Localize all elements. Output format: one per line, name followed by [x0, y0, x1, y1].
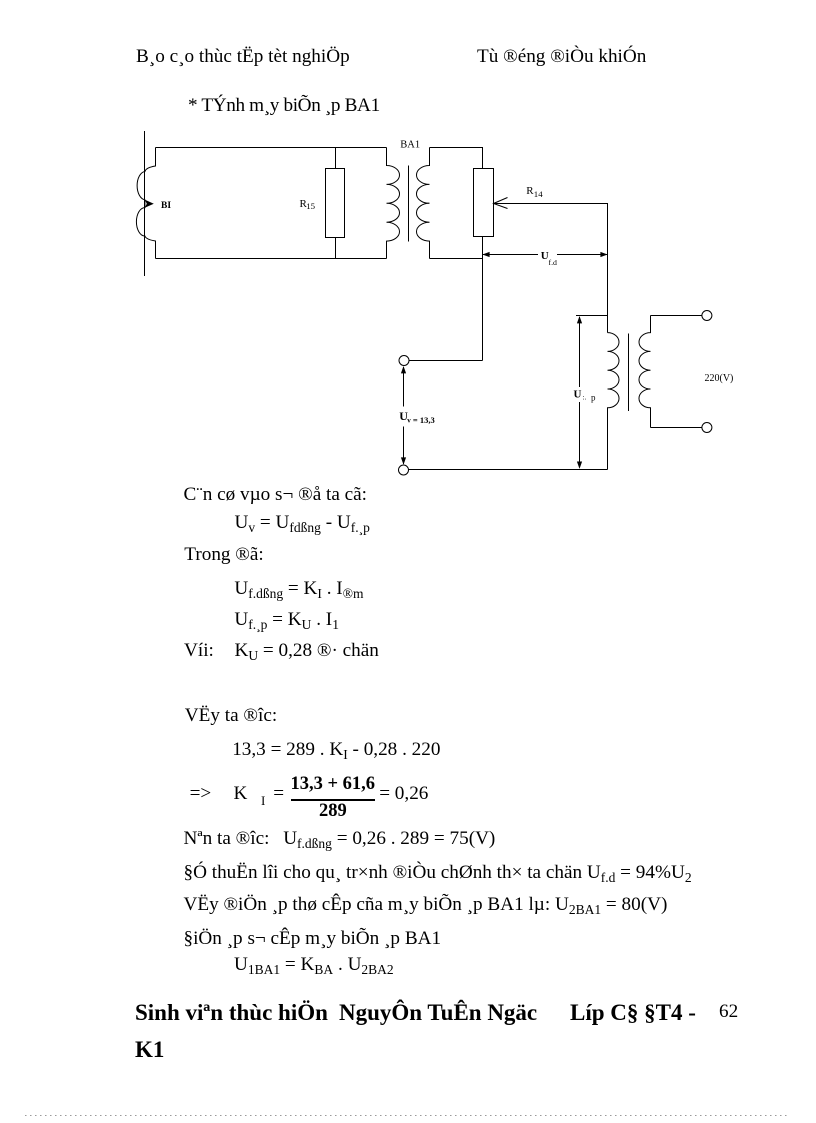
svg-text:v: v [407, 417, 411, 425]
terminal circle top-right [702, 311, 712, 321]
BI arrow [145, 200, 154, 208]
header left [136, 47, 350, 66]
svg-text::.: :. [583, 394, 587, 402]
wire R14 bottom down [482, 237, 484, 361]
wire loop top [156, 147, 387, 149]
svg-text:= 13,3: = 13,3 [413, 415, 435, 425]
svg-text:15: 15 [306, 201, 315, 211]
low transformer core [628, 334, 630, 412]
title [188, 96, 380, 115]
wire secondary top right [651, 315, 703, 317]
resistor R15 [335, 148, 337, 169]
measure Uthap extension tick [576, 315, 608, 317]
wire bottom horizontal to transformer [409, 469, 608, 471]
svg-text:220(V): 220(V) [705, 373, 734, 384]
terminal circle bottom-left [399, 465, 409, 475]
wire secondary top to R14 [430, 148, 483, 169]
terminal circle bottom-right [702, 423, 712, 433]
measure Ufd line [483, 254, 539, 256]
low transformer primary winding [608, 333, 620, 470]
low transformer secondary winding [639, 316, 651, 428]
wire secondary bottom right [651, 427, 703, 429]
wire wiper to right bus [494, 204, 608, 333]
resistor R14 [474, 169, 494, 237]
wire loop bottom [156, 258, 387, 260]
circuit schematic svg [0, 0, 816, 500]
header right [477, 47, 646, 66]
svg-text:U: U [574, 389, 582, 401]
transducer BI [136, 148, 155, 259]
wire secondary bottom [430, 258, 483, 260]
svg-text:BA1: BA1 [400, 139, 420, 150]
svg-text:p: p [591, 393, 596, 403]
BA1 core [408, 166, 410, 242]
terminal circle top-left [399, 356, 409, 366]
measure Uv [403, 367, 405, 407]
svg-text:f.d: f.d [549, 258, 558, 267]
wire terminal to R14 wire [409, 360, 483, 362]
footer [135, 1001, 328, 1024]
svg-text:14: 14 [534, 189, 543, 199]
BA1 primary winding [387, 148, 400, 259]
R14 wiper arrow [494, 198, 508, 209]
svg-text:BI: BI [161, 201, 171, 211]
bus line [144, 131, 146, 276]
dotted separator [25, 1115, 790, 1116]
body text [184, 485, 368, 504]
=> K_I = fraction [190, 784, 212, 803]
BA1 secondary winding [416, 148, 429, 259]
measure Uthap line [579, 317, 581, 387]
